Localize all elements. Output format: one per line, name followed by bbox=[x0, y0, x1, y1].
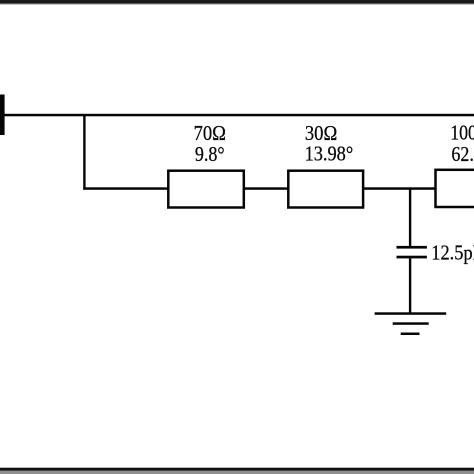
wire: vertical drop from top wire bbox=[83, 114, 85, 190]
ground symbol bar 2 bbox=[393, 322, 429, 325]
svg-text:13.98°: 13.98° bbox=[305, 142, 354, 166]
wire: R1 to R2 bbox=[244, 187, 289, 190]
resistor R2 (box) bbox=[288, 171, 363, 208]
bottom border smudge bbox=[0, 466, 474, 469]
node A junction / wire: capacitor stem upper bbox=[409, 189, 411, 247]
svg-text:9.8°: 9.8° bbox=[195, 142, 225, 166]
ground symbol bar 3 bbox=[401, 333, 420, 336]
bottom border bar bbox=[0, 468, 474, 471]
resistor R1 (box) bbox=[168, 171, 244, 208]
wire: top horizontal from port across full width bbox=[0, 114, 474, 117]
ground symbol bar 1 bbox=[375, 312, 447, 315]
top border bar bbox=[0, 0, 474, 3]
resistor R3 (box, clipped at right edge) bbox=[436, 170, 474, 207]
capacitor C1 top plate bbox=[397, 246, 427, 249]
svg-text:12.5pF: 12.5pF bbox=[431, 241, 474, 265]
wire: R2 to R3 through node A bbox=[362, 187, 436, 190]
svg-text:62.8°: 62.8° bbox=[451, 142, 474, 166]
port P1 (input terminal bar) bbox=[0, 95, 5, 136]
wire: capacitor stem lower to ground bbox=[409, 258, 411, 313]
capacitor C1 bottom plate bbox=[397, 256, 427, 259]
wire: lower horizontal into resistor R1 bbox=[83, 187, 168, 190]
